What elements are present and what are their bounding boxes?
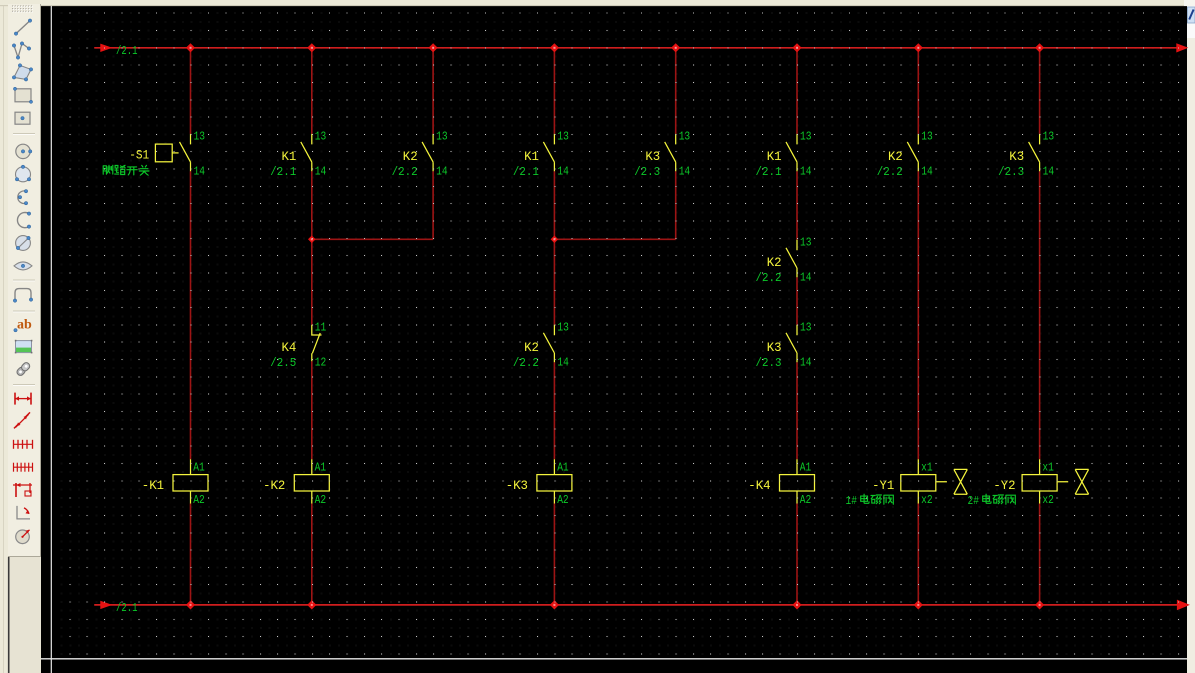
svg-text:-Y2: -Y2 xyxy=(993,478,1015,493)
junction node bottom bus / branch 1 xyxy=(186,600,195,609)
wire merge branch5 into branch4 xyxy=(554,238,675,240)
svg-text:K1: K1 xyxy=(524,149,539,164)
svg-text:14: 14 xyxy=(921,165,933,179)
svg-text:K2: K2 xyxy=(403,149,418,164)
svg-text:14: 14 xyxy=(679,165,691,179)
relay coil -K4 A1/A2 xyxy=(748,459,814,507)
wire bottom supply bus /2.1 xyxy=(94,600,1190,611)
svg-text:A2: A2 xyxy=(800,493,812,507)
left drawing toolbar icons xyxy=(12,19,35,544)
relay contact K1 /2.1 NO 13/14 on branch 2 row1 xyxy=(270,130,326,180)
relay contact K3 /2.3 NO 13/14 on branch 5 row1 xyxy=(634,130,690,180)
svg-text:13: 13 xyxy=(557,320,569,334)
relay coil -K1 A1/A2 xyxy=(142,459,208,507)
svg-text:K1: K1 xyxy=(282,149,297,164)
svg-text:K4: K4 xyxy=(282,340,297,355)
relay contact K1 /2.1 NO 13/14 on branch 6 row1 xyxy=(756,130,812,180)
junction node top bus / branch 2 xyxy=(307,43,316,52)
svg-text:-Y1: -Y1 xyxy=(872,478,894,493)
svg-text:/2.1: /2.1 xyxy=(270,165,296,179)
svg-text:13: 13 xyxy=(1043,130,1055,144)
wire merge branch3 into branch2 xyxy=(312,238,433,240)
junction node top bus / branch 3 xyxy=(429,43,438,52)
svg-text:A1: A1 xyxy=(800,460,812,474)
svg-text:K3: K3 xyxy=(1009,149,1024,164)
svg-text:14: 14 xyxy=(557,165,569,179)
svg-text:K1: K1 xyxy=(767,149,782,164)
svg-text:14: 14 xyxy=(800,165,812,179)
svg-text:A1: A1 xyxy=(193,460,205,474)
junction node top bus / branch 5 xyxy=(671,43,680,52)
junction node top bus / branch 4 xyxy=(550,43,559,52)
svg-text:/2.1: /2.1 xyxy=(116,44,138,58)
svg-text:1#: 1# xyxy=(846,494,858,508)
svg-text:13: 13 xyxy=(921,130,933,144)
svg-text:/2.1: /2.1 xyxy=(756,165,782,179)
relay contact K2 /2.2 NO 13/14 on branch 7 row1 xyxy=(877,130,933,180)
junction node bottom bus / branch 6 xyxy=(792,600,801,609)
wire branch 7 vertical x=918 xyxy=(917,48,919,605)
svg-text:/2.2: /2.2 xyxy=(756,271,782,285)
svg-text:12: 12 xyxy=(315,356,327,370)
wire top supply bus /2.1 xyxy=(94,43,1188,52)
svg-text:/2.1: /2.1 xyxy=(116,601,138,615)
svg-text:14: 14 xyxy=(436,165,448,179)
relay contact K4 /2.5 NC 11/12 on branch 2 row3 xyxy=(270,320,326,370)
junction node top bus / branch 7 xyxy=(914,43,923,52)
wire branch 4 vertical x=554 xyxy=(553,48,555,605)
svg-text:13: 13 xyxy=(800,320,812,334)
solenoid coil -Y2 x1/x2 xyxy=(993,459,1057,507)
junction node bottom bus / branch 8 xyxy=(1035,600,1044,609)
svg-text:/2.2: /2.2 xyxy=(392,165,418,179)
wire branch 8 vertical x=1040 xyxy=(1039,48,1041,605)
valve symbol for -Y2 xyxy=(1058,469,1089,494)
junction node bottom bus / branch 7 xyxy=(914,600,923,609)
svg-text:-K1: -K1 xyxy=(142,478,164,493)
svg-text:/2.3: /2.3 xyxy=(998,165,1024,179)
label 1#电磁阀 (solenoid valve 1) xyxy=(846,494,894,508)
svg-text:K3: K3 xyxy=(645,149,660,164)
svg-text:-S1: -S1 xyxy=(129,148,149,163)
switch S1 foot-operated contact 13/14 xyxy=(155,130,205,179)
svg-text:/2.5: /2.5 xyxy=(270,356,296,370)
svg-text:13: 13 xyxy=(315,130,327,144)
svg-text:/2.3: /2.3 xyxy=(756,356,782,370)
svg-text:13: 13 xyxy=(679,130,691,144)
svg-text:A1: A1 xyxy=(557,460,569,474)
relay contact K1 /2.1 NO 13/14 on branch 4 row1 xyxy=(513,130,569,180)
svg-text:/2.1: /2.1 xyxy=(513,165,539,179)
svg-text:/2.2: /2.2 xyxy=(513,356,539,370)
junction node bottom bus / branch 4 xyxy=(550,600,559,609)
label 2#电磁阀 (solenoid valve 2) xyxy=(968,494,1016,508)
svg-text:-K2: -K2 xyxy=(263,478,285,493)
relay coil -K3 A1/A2 xyxy=(506,459,572,507)
svg-text:2#: 2# xyxy=(968,494,980,508)
valve symbol for -Y1 xyxy=(936,469,967,494)
solenoid coil -Y1 x1/x2 xyxy=(872,459,936,507)
relay coil -K2 A1/A2 xyxy=(263,459,329,507)
svg-text:x2: x2 xyxy=(1042,493,1054,507)
wire branch 5 vertical x=676 xyxy=(675,48,677,240)
svg-text:A2: A2 xyxy=(193,493,205,507)
junction node branch4 merge xyxy=(551,236,559,244)
svg-text:14: 14 xyxy=(800,271,812,285)
svg-text:13: 13 xyxy=(436,130,448,144)
svg-text:13: 13 xyxy=(800,235,812,249)
svg-text:14: 14 xyxy=(315,165,327,179)
svg-text:14: 14 xyxy=(557,356,569,370)
relay contact K2 /2.2 NO 13/14 on branch 6 row2 xyxy=(756,235,812,285)
svg-text:x1: x1 xyxy=(921,460,933,474)
label 脚踏开关 (foot switch) xyxy=(103,165,149,175)
svg-text:A1: A1 xyxy=(315,460,327,474)
relay contact K2 /2.2 NO 13/14 on branch 4 row3 xyxy=(513,320,569,370)
svg-text:x2: x2 xyxy=(921,493,933,507)
svg-text:13: 13 xyxy=(800,130,812,144)
svg-text:A2: A2 xyxy=(557,493,569,507)
svg-text:11: 11 xyxy=(315,320,327,334)
svg-text:ab: ab xyxy=(17,318,32,333)
junction node top bus / branch 6 xyxy=(792,43,801,52)
relay contact K3 /2.3 NO 13/14 on branch 6 row3 xyxy=(756,320,812,370)
junction node branch2 merge xyxy=(308,236,316,244)
svg-text:K3: K3 xyxy=(767,340,782,355)
wire branch 6 vertical x=797 xyxy=(796,48,798,605)
svg-text:/2.2: /2.2 xyxy=(877,165,903,179)
svg-text:K2: K2 xyxy=(767,255,782,270)
svg-text:/2.3: /2.3 xyxy=(634,165,660,179)
svg-text:14: 14 xyxy=(800,356,812,370)
svg-text:13: 13 xyxy=(557,130,569,144)
wire branch 1 vertical x=190 xyxy=(190,48,192,605)
wire branch 3 vertical x=433 xyxy=(432,48,434,240)
svg-text:x1: x1 xyxy=(1042,460,1054,474)
svg-text:K2: K2 xyxy=(524,340,539,355)
wire branch 2 vertical x=312 xyxy=(311,48,313,605)
svg-text:14: 14 xyxy=(1043,165,1055,179)
junction node bottom bus / branch 2 xyxy=(307,600,316,609)
junction node top bus / branch 8 xyxy=(1035,43,1044,52)
relay contact K3 /2.3 NO 13/14 on branch 8 row1 xyxy=(998,130,1054,180)
junction node top bus / branch 1 xyxy=(186,43,195,52)
svg-text:14: 14 xyxy=(194,165,206,179)
relay contact K2 /2.2 NO 13/14 on branch 3 row1 xyxy=(392,130,448,180)
svg-text:-K4: -K4 xyxy=(748,478,770,493)
svg-text:K2: K2 xyxy=(888,149,903,164)
svg-text:A2: A2 xyxy=(315,493,327,507)
svg-text:-K3: -K3 xyxy=(506,478,528,493)
svg-text:13: 13 xyxy=(194,130,206,144)
